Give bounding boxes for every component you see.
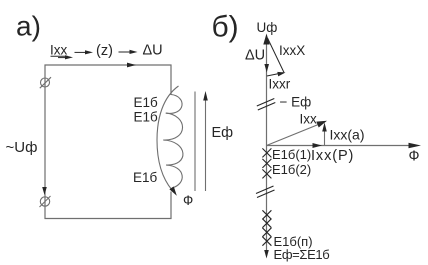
wire top [45,64,172,66]
svg-text:Iхх: Iхх [300,112,318,127]
svg-text:Е1б(2): Е1б(2) [272,162,311,177]
svg-text:Ф: Ф [409,149,420,165]
svg-text:Е1б(1): Е1б(1) [272,147,311,162]
flux arc [157,86,179,190]
svg-text:~Uф: ~Uф [6,139,38,156]
emf cross mark 3 [262,169,271,178]
svg-text:Ixx: Ixx [50,43,68,58]
axis bottom arrowhead sum-emf [264,250,269,259]
vector Ixx [267,123,323,146]
component arrowhead Ixx(P) [313,143,323,148]
wire bottom [45,218,172,220]
terminal bottom [40,197,49,206]
svg-text:Ф: Ф [183,193,193,208]
component Ixx(a) [324,128,326,145]
svg-text:ΔU: ΔU [245,48,265,64]
svg-text:б): б) [212,11,239,44]
vector Ixxr [267,73,283,76]
emf cross mark 6 [262,228,271,237]
svg-text:Е1б: Е1б [134,110,159,125]
svg-text:(z): (z) [96,43,113,59]
svg-text:Iхх(Р): Iхх(Р) [311,148,354,164]
wire left [44,65,46,220]
emf cross mark 5 [262,219,271,228]
winding loop 3 [163,140,183,165]
winding loop 4 [166,165,182,188]
flow arrow 2 [119,51,132,53]
svg-text:Еф: Еф [212,125,234,141]
svg-text:Uф: Uф [257,20,278,35]
svg-text:IххХ: IххХ [279,43,305,58]
emf cross mark 4 [262,210,271,219]
wire right lower [170,192,172,220]
emf line right with arrow [205,95,207,191]
vector delta-U arrowhead [264,64,269,73]
svg-text:Е1б: Е1б [133,170,158,185]
svg-text:Iхх(а): Iхх(а) [330,127,365,143]
axis break lower [256,186,274,194]
emf cross mark 7 [262,237,271,246]
svg-text:− Еф: − Еф [280,95,312,110]
axis break upper [257,99,275,107]
wire right upper [170,65,172,96]
svg-text:а): а) [16,11,41,42]
axis top arrowhead Uf [263,34,269,45]
svg-text:Еф=ΣЕ1б: Еф=ΣЕ1б [274,247,330,262]
current arrowhead on top wire [127,63,136,68]
svg-text:Iххr: Iххr [269,77,291,92]
vertical axis [266,42,268,251]
emf cross mark 1 [262,148,271,157]
flow arrow 1 [75,51,88,53]
vector IxxX [268,38,285,73]
terminal top [41,78,50,87]
winding loop 2 [163,113,182,140]
current arrowhead on left wire [42,187,47,195]
emf cross mark 2 [262,159,271,168]
winding loop 1 [166,95,182,114]
flux arrowhead [169,187,176,196]
axis arrowhead F [409,143,422,149]
svg-text:Е1б: Е1б [134,95,159,110]
horizontal axis [267,145,417,147]
emf line left [194,92,196,192]
svg-text:ΔU: ΔU [143,43,163,59]
